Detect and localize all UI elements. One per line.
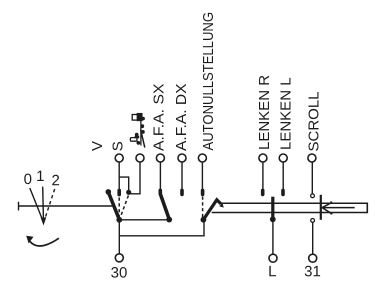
contact stub S bbox=[117, 190, 121, 194]
rotation arrow arc bbox=[30, 238, 59, 246]
wire LENKEN R down bbox=[262, 162, 264, 190]
wire L down bbox=[272, 219, 274, 254]
terminal circle SCROLL bbox=[308, 154, 316, 162]
contact stub AUTONULLSTELLUNG bbox=[201, 190, 205, 194]
dashed position line from S stub bbox=[118, 198, 120, 217]
shaft step ticks bbox=[330, 201, 332, 203]
svg-text:LENKEN R: LENKEN R bbox=[256, 75, 273, 150]
node SX lever bottom dot bbox=[166, 217, 172, 223]
terminal circle L bbox=[269, 254, 277, 262]
svg-text:SCROLL: SCROLL bbox=[306, 91, 323, 151]
terminal circle tractor bbox=[136, 154, 144, 162]
terminal circle AUTONULLSTELLUNG bbox=[198, 154, 206, 162]
node AUTONULLSTELLUNG dot bbox=[201, 217, 207, 223]
contact stub LENKEN R bbox=[261, 190, 265, 194]
svg-text:30: 30 bbox=[111, 264, 128, 281]
terminal circle 31 bbox=[309, 254, 317, 262]
node lenken wiper dot bbox=[270, 216, 276, 222]
svg-text:A.F.A. SX: A.F.A. SX bbox=[151, 84, 168, 152]
svg-text:AUTONULLSTELLUNG: AUTONULLSTELLUNG bbox=[200, 12, 217, 151]
scroll contact circle lower bbox=[311, 219, 315, 223]
wire S branch to node bbox=[119, 177, 129, 190]
rotary line 2 dashed bbox=[46, 189, 55, 217]
wire 31 down bbox=[312, 222, 314, 254]
wire SCROLL down bbox=[311, 162, 313, 193]
wire S down bbox=[118, 162, 120, 190]
wire rotary input with end tick bbox=[19, 205, 114, 207]
shaft body bbox=[220, 202, 367, 204]
dashed position line AUTONULLSTELLUNG bbox=[202, 197, 204, 218]
wire AUTONULLSTELLUNG down bbox=[201, 162, 203, 190]
svg-text:1: 1 bbox=[36, 168, 44, 185]
svg-text:31: 31 bbox=[304, 263, 321, 280]
scroll contact bar bbox=[320, 195, 322, 220]
terminal circle A.F.A. SX bbox=[156, 154, 164, 162]
rotary line 0 bbox=[30, 188, 43, 222]
wire AUTONULL dot to 30 wire bbox=[119, 220, 204, 236]
terminal circle 30 bbox=[115, 254, 123, 262]
wire junction down to 30 bbox=[118, 220, 120, 254]
switch lever V (main wiper) bbox=[106, 189, 112, 195]
terminal circle LENKEN L bbox=[279, 154, 287, 162]
terminal circle LENKEN R bbox=[259, 154, 267, 162]
terminal circle S bbox=[115, 154, 123, 162]
svg-text:2: 2 bbox=[52, 172, 60, 189]
wire junction to SX dot bbox=[119, 219, 169, 221]
lenken wiper bar bbox=[271, 197, 274, 218]
rotary line 1 with arrow bbox=[42, 187, 45, 218]
wire A.F.A. DX down bbox=[181, 162, 183, 190]
svg-text:A.F.A. DX: A.F.A. DX bbox=[173, 84, 190, 152]
lever AUTONULLSTELLUNG with arrow tip bbox=[204, 200, 221, 220]
switch lever A.F.A. SX bbox=[160, 190, 169, 219]
shaft inner arrow (push direction) bbox=[323, 207, 355, 209]
contact stub A.F.A. DX bbox=[180, 190, 184, 194]
wire LENKEN L down bbox=[282, 162, 284, 190]
terminal circle A.F.A. DX bbox=[178, 154, 186, 162]
dashed position line from S/tractor node bbox=[121, 196, 129, 217]
svg-text:L: L bbox=[268, 263, 276, 280]
icon tractor bbox=[130, 114, 145, 148]
contact stub LENKEN L bbox=[281, 190, 285, 194]
svg-text:V: V bbox=[89, 141, 106, 151]
node S/tractor junction dot bbox=[126, 190, 131, 195]
svg-text:0: 0 bbox=[24, 171, 32, 188]
svg-text:LENKEN L: LENKEN L bbox=[277, 77, 294, 150]
wire tractor down bbox=[129, 162, 140, 194]
svg-text:S: S bbox=[109, 141, 126, 151]
wire A.F.A. SX down bbox=[159, 162, 161, 190]
scroll contact circle upper bbox=[311, 194, 315, 198]
node main junction dot bbox=[116, 217, 122, 223]
